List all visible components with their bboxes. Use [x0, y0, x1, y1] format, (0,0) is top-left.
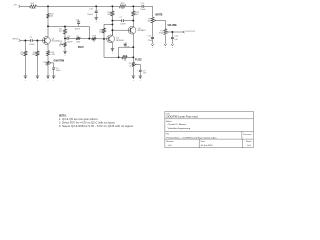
- svg-text:1k: 1k: [129, 65, 131, 67]
- svg-text:+: +: [55, 67, 56, 69]
- svg-text:2M2: 2M2: [32, 54, 37, 56]
- svg-text:+: +: [137, 69, 138, 71]
- svg-text:R7: R7: [76, 36, 79, 38]
- svg-text:100nF: 100nF: [120, 24, 126, 26]
- svg-text:File: File: [166, 134, 169, 136]
- svg-text:R13: R13: [121, 3, 126, 5]
- svg-text:Document: Document: [243, 133, 252, 136]
- svg-text:C16: C16: [89, 9, 94, 11]
- svg-text:Valvelike Engineering: Valvelike Engineering: [168, 127, 191, 130]
- svg-text:100k: 100k: [99, 32, 103, 34]
- svg-text:1uF: 1uF: [143, 73, 147, 75]
- svg-text:1M: 1M: [20, 54, 23, 56]
- svg-text:100nF: 100nF: [140, 9, 146, 11]
- svg-text:10-Jun-2024: 10-Jun-2024: [201, 145, 214, 147]
- svg-text:1uF: 1uF: [174, 39, 178, 41]
- svg-text:470: 470: [51, 54, 55, 56]
- svg-text:R09: R09: [124, 56, 127, 58]
- svg-text:C7: C7: [120, 17, 123, 19]
- svg-text:Sheets: Sheets: [246, 140, 252, 143]
- svg-text:Revision: Revision: [166, 141, 173, 143]
- svg-text:10k: 10k: [50, 16, 53, 18]
- svg-text:4k7: 4k7: [135, 14, 139, 16]
- svg-text:C10: C10: [174, 36, 179, 38]
- svg-text:BRITE: BRITE: [156, 14, 163, 16]
- svg-text:10k: 10k: [59, 31, 62, 33]
- svg-text:3. Select Q3 & R08 for 5.3V -: 3. Select Q3 & R08 for 5.3V - 5.5V on Q3…: [59, 124, 134, 128]
- svg-text:INPUT: INPUT: [13, 38, 20, 40]
- svg-text:5k: 5k: [60, 43, 62, 45]
- svg-text:1k: 1k: [93, 41, 95, 43]
- svg-text:MPSA18: MPSA18: [138, 29, 145, 32]
- svg-text:2. Select R07 for +4.5V on Q2-: 2. Select R07 for +4.5V on Q2-C with no …: [59, 121, 116, 125]
- svg-text:BS170: BS170: [78, 47, 84, 49]
- svg-text:Date: Date: [201, 140, 205, 143]
- svg-text:OUTPUT: OUTPUT: [185, 31, 196, 33]
- svg-text:+9V: +9V: [13, 5, 17, 7]
- svg-text:R08: R08: [92, 36, 97, 38]
- svg-text:100nF: 100nF: [67, 41, 73, 43]
- svg-text:C5: C5: [67, 36, 70, 38]
- svg-text:GAIN TRIM: GAIN TRIM: [54, 59, 65, 62]
- svg-text:1. Q4 & Q5 are low gain silico: 1. Q4 & Q5 are low gain silicon.: [59, 117, 99, 121]
- svg-text:100nF: 100nF: [75, 28, 81, 30]
- svg-text:100R: 100R: [31, 8, 36, 10]
- svg-text:MPSA18: MPSA18: [116, 39, 123, 42]
- svg-text:C12: C12: [124, 43, 127, 45]
- svg-text:VOLUME: VOLUME: [168, 25, 178, 27]
- svg-text:100k: 100k: [159, 33, 163, 35]
- svg-text:10uF: 10uF: [56, 70, 61, 72]
- svg-text:+: +: [98, 9, 99, 11]
- svg-text:C15: C15: [141, 3, 146, 5]
- svg-text:50k: 50k: [147, 21, 150, 23]
- svg-text:2k: 2k: [45, 64, 47, 66]
- svg-text:1k: 1k: [121, 8, 123, 10]
- svg-text:Title: Title: [166, 112, 170, 115]
- svg-text:100k: 100k: [76, 41, 80, 43]
- svg-text:R15: R15: [31, 3, 36, 5]
- svg-text:1 of 1: 1 of 1: [247, 145, 252, 147]
- svg-text:v1.0: v1.0: [168, 145, 173, 147]
- svg-text:C1: C1: [30, 37, 33, 39]
- svg-text:100nF: 100nF: [29, 44, 35, 46]
- svg-text:1k: 1k: [124, 60, 126, 62]
- svg-text:DOD/FW Lunar Fuzz mod: DOD/FW Lunar Fuzz mod: [167, 116, 199, 119]
- svg-text:22nF: 22nF: [148, 40, 153, 42]
- svg-text:100uF: 100uF: [87, 14, 93, 16]
- svg-text:Chuck D. Bones: Chuck D. Bones: [168, 124, 188, 126]
- svg-text:F:\Users\Chu ... DOD/FW LunarF: F:\Users\Chu ... DOD/FW LunarFuzz mod v1…: [167, 137, 217, 139]
- svg-text:FUZZ: FUZZ: [135, 60, 143, 62]
- svg-text:Author: Author: [166, 120, 172, 123]
